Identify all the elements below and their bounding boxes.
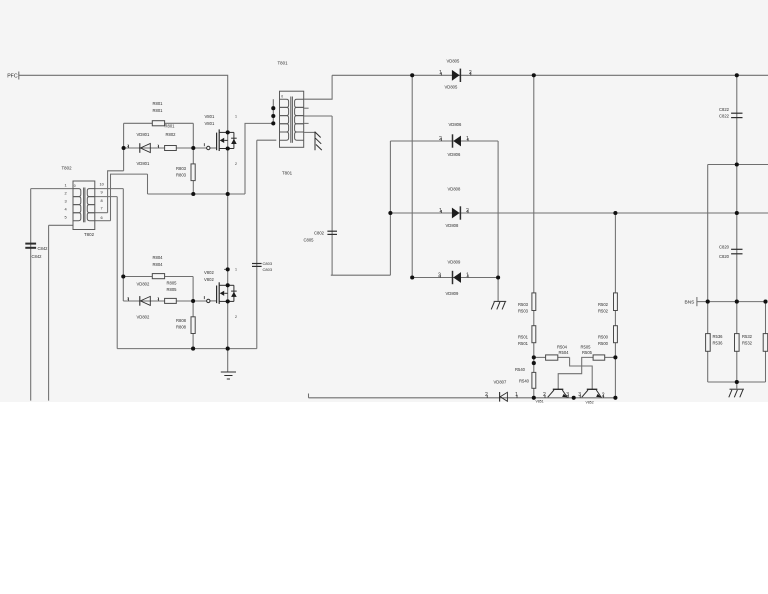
- svg-text:VD809: VD809: [448, 260, 461, 265]
- svg-text:1: 1: [235, 115, 237, 119]
- svg-text:1: 1: [466, 273, 469, 279]
- svg-text:V801: V801: [205, 121, 215, 126]
- svg-text:VD806: VD806: [448, 152, 461, 157]
- svg-text:VD808: VD808: [446, 223, 459, 228]
- svg-text:C822: C822: [719, 114, 730, 119]
- svg-text:VD808: VD808: [448, 187, 461, 192]
- svg-text:BNS: BNS: [685, 300, 695, 306]
- svg-text:C842: C842: [38, 246, 49, 251]
- svg-text:R504: R504: [559, 350, 570, 355]
- svg-text:R532: R532: [742, 334, 753, 339]
- svg-text:C842: C842: [32, 254, 43, 259]
- svg-text:0: 0: [74, 184, 76, 188]
- svg-text:VD802: VD802: [137, 315, 150, 320]
- svg-text:V851: V851: [536, 400, 544, 404]
- svg-text:R501: R501: [518, 335, 529, 340]
- svg-text:R803: R803: [176, 166, 187, 171]
- svg-text:5: 5: [65, 215, 67, 220]
- svg-text:C802: C802: [314, 231, 325, 236]
- svg-text:1: 1: [65, 183, 67, 188]
- svg-text:VD809: VD809: [446, 291, 459, 296]
- svg-text:3: 3: [65, 199, 67, 204]
- svg-text:R502: R502: [598, 309, 609, 314]
- svg-text:R540: R540: [515, 367, 526, 372]
- svg-text:1: 1: [515, 392, 518, 398]
- svg-text:3: 3: [578, 392, 581, 398]
- svg-text:R808: R808: [176, 325, 187, 330]
- svg-text:V802: V802: [204, 270, 214, 275]
- svg-text:V852: V852: [586, 401, 594, 405]
- svg-text:C820: C820: [719, 245, 730, 250]
- svg-text:T801: T801: [282, 171, 293, 176]
- svg-text:T801: T801: [278, 61, 289, 66]
- svg-text:R500: R500: [598, 341, 609, 346]
- svg-text:3: 3: [566, 392, 569, 398]
- svg-text:R536: R536: [713, 341, 724, 346]
- svg-text:R503: R503: [518, 302, 529, 307]
- svg-text:C803: C803: [263, 261, 273, 266]
- svg-text:VD806: VD806: [449, 122, 462, 127]
- svg-text:VD807: VD807: [494, 380, 507, 385]
- svg-text:R801: R801: [165, 124, 176, 129]
- svg-text:R808: R808: [176, 318, 187, 323]
- svg-text:9: 9: [101, 189, 103, 194]
- svg-text:VD801: VD801: [137, 161, 150, 166]
- svg-text:R505: R505: [581, 345, 592, 350]
- svg-text:VD802: VD802: [137, 282, 150, 287]
- svg-text:C820: C820: [719, 254, 730, 259]
- svg-text:R805: R805: [167, 281, 178, 286]
- svg-text:2: 2: [466, 208, 469, 214]
- svg-text:R803: R803: [176, 173, 187, 178]
- svg-text:R801: R801: [153, 101, 164, 106]
- svg-text:6: 6: [101, 215, 103, 220]
- svg-text:PFC: PFC: [7, 73, 18, 79]
- svg-text:R804: R804: [153, 255, 164, 260]
- svg-text:R540: R540: [519, 379, 530, 384]
- svg-text:VD801: VD801: [137, 132, 150, 137]
- svg-text:1: 1: [439, 70, 442, 76]
- svg-text:1: 1: [235, 268, 237, 272]
- svg-text:2: 2: [602, 393, 605, 399]
- svg-text:2: 2: [469, 70, 472, 76]
- svg-text:2: 2: [235, 162, 237, 166]
- svg-text:R805: R805: [167, 287, 178, 292]
- svg-text:2: 2: [439, 136, 442, 142]
- svg-text:R502: R502: [598, 302, 609, 307]
- svg-text:R501: R501: [518, 341, 529, 346]
- svg-text:R801: R801: [153, 108, 164, 113]
- svg-text:R504: R504: [557, 345, 568, 350]
- svg-text:R532: R532: [742, 341, 753, 346]
- svg-text:2: 2: [65, 191, 67, 196]
- svg-text:R804: R804: [153, 262, 164, 267]
- svg-text:2: 2: [235, 315, 237, 319]
- svg-text:R503: R503: [518, 309, 529, 314]
- svg-text:C803: C803: [263, 267, 273, 272]
- svg-text:R500: R500: [598, 335, 609, 340]
- svg-text:C822: C822: [719, 107, 730, 112]
- svg-text:V801: V801: [205, 114, 215, 119]
- svg-text:2: 2: [543, 392, 546, 398]
- svg-text:VD805: VD805: [447, 59, 460, 64]
- svg-text:8: 8: [101, 198, 103, 203]
- svg-text:T802: T802: [84, 232, 95, 237]
- svg-text:R505: R505: [582, 350, 593, 355]
- svg-text:7: 7: [101, 206, 103, 211]
- svg-text:2: 2: [438, 273, 441, 279]
- svg-text:R536: R536: [713, 334, 724, 339]
- svg-text:VD805: VD805: [445, 85, 458, 90]
- svg-text:C805: C805: [304, 238, 315, 243]
- svg-text:V802: V802: [204, 277, 214, 282]
- svg-text:T802: T802: [62, 166, 73, 171]
- svg-text:1: 1: [466, 136, 469, 142]
- svg-text:2: 2: [485, 392, 488, 398]
- svg-text:1: 1: [439, 208, 442, 214]
- svg-text:R802: R802: [166, 132, 177, 137]
- svg-text:0: 0: [281, 94, 283, 98]
